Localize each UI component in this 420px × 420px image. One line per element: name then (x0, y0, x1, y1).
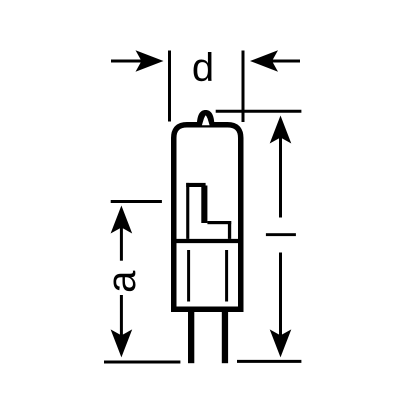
dimension a: lower arrow down (111, 295, 133, 357)
label l (rotated, appears as dash) (266, 233, 296, 236)
dimension d: right extension line (242, 51, 245, 123)
pin right (222, 309, 228, 363)
dimension l (right): bottom extension line (237, 360, 301, 363)
dimension d: right arrow line (250, 50, 300, 72)
filament support: foot right bar (228, 221, 231, 239)
dimension a: top extension line (111, 200, 162, 203)
svg-text:d: d (192, 46, 214, 90)
dimension a: upper arrow up (111, 206, 133, 261)
filament support: right band (201, 186, 207, 224)
dimension d: left extension line (168, 51, 171, 122)
bulb tip bump (197, 110, 215, 126)
filament support: foot top bar (207, 221, 231, 224)
filament support: left bar (186, 183, 189, 239)
dimension l (right): lower arrow down (270, 253, 292, 358)
dimension l (right): upper arrow up (270, 116, 292, 218)
lead wire right (225, 250, 228, 302)
pinch separator line (171, 239, 244, 243)
dimension l (right): top extension line (216, 110, 302, 113)
lead wire left (187, 250, 190, 302)
dimension a: bottom extension line (104, 361, 180, 364)
filament support (L shape): top bar (186, 183, 205, 187)
svg-text:a: a (100, 270, 144, 293)
pin left (188, 309, 194, 363)
bulb tip inner white triangle (202, 115, 210, 125)
dimension d: left arrow line (111, 50, 164, 72)
bulb envelope outline (174, 125, 241, 310)
